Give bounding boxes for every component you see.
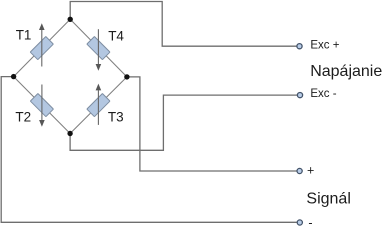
terminal Exc-: [297, 93, 302, 98]
strain gauge T1 (rect rotated -45, arrow up): [30, 23, 53, 66]
wire: net Exc+ (top node up, across top, down to Exc+ terminal): [70, 2, 296, 47]
wire: net Signal+ (right node right, down, right to + terminal): [127, 77, 297, 171]
svg-text:T3: T3: [108, 110, 124, 125]
bridge arm wire: bottom node to right node (T3 arm): [70, 77, 127, 134]
node: top bridge junction: [68, 17, 73, 22]
bridge arm wire: left node to bottom node (T2 arm): [14, 77, 71, 134]
svg-text:+: +: [307, 163, 314, 177]
node: left bridge junction: [11, 74, 16, 79]
strain gauge T4 (rect rotated +45, arrow down): [87, 29, 110, 71]
wire: net Signal- (left node left, down left edge, across bottom to - terminal): [1, 77, 297, 223]
svg-text:Exc -: Exc -: [310, 88, 336, 100]
svg-text:Signál: Signál: [306, 191, 350, 208]
svg-text:Napájanie: Napájanie: [310, 63, 382, 80]
terminal Signal+: [297, 168, 302, 173]
svg-text:T2: T2: [15, 109, 31, 124]
bridge arm wire: left node to top node (T1 arm): [14, 19, 71, 76]
node: right bridge junction: [124, 74, 129, 79]
terminal Signal-: [297, 220, 302, 225]
svg-text:T4: T4: [108, 28, 124, 43]
bridge arm wire: top node to right node (T4 arm): [70, 19, 127, 77]
node: bottom bridge junction: [67, 131, 72, 136]
terminal Exc+: [297, 44, 302, 49]
svg-text:-: -: [308, 216, 312, 230]
strain gauge T2 (rect rotated +45, arrow down): [30, 85, 53, 127]
svg-text:Exc +: Exc +: [310, 40, 339, 52]
wire: net Exc- (bottom node down, right, up, right to Exc- terminal): [70, 95, 297, 150]
svg-text:T1: T1: [16, 28, 32, 43]
strain gauge T3 (rect rotated -45, arrow up): [87, 84, 110, 125]
